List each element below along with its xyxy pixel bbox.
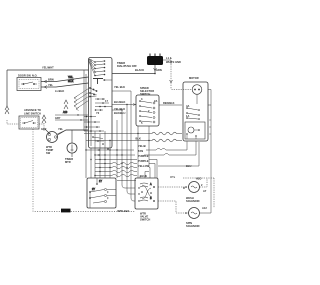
svg-text:GND: GND bbox=[62, 210, 68, 213]
timer T box bbox=[89, 58, 113, 149]
chassis dashed border left bbox=[33, 129, 42, 211]
svg-text:YEL BLK: YEL BLK bbox=[114, 85, 125, 89]
wire motor right bus bbox=[208, 104, 211, 106]
wire timer to speed YEL BLK bbox=[112, 90, 131, 92]
timer lower-left stubs bbox=[84, 117, 104, 132]
svg-text:H2O: H2O bbox=[196, 177, 201, 181]
water temp switch WT circle bbox=[47, 132, 58, 143]
svg-text:L1 &: L1 & bbox=[166, 56, 172, 60]
wire bundle row 7 zigzag bbox=[95, 174, 140, 178]
svg-text:BRN: BRN bbox=[48, 78, 54, 82]
node chevron left bbox=[5, 106, 9, 114]
wire BLU row right bbox=[158, 142, 199, 166]
wire white cord down to motor bbox=[171, 64, 192, 90]
label chassis bbox=[61, 209, 71, 213]
wire coil to motor 2 bbox=[86, 139, 182, 142]
svg-text:2A: 2A bbox=[154, 99, 157, 103]
wire door sw to timer BRN bbox=[41, 77, 89, 82]
svg-text:BLACK: BLACK bbox=[135, 68, 144, 72]
svg-text:4A: 4A bbox=[186, 104, 189, 108]
timer upper contacts bbox=[95, 61, 104, 76]
svg-text:PURPLE: PURPLE bbox=[138, 154, 149, 158]
node chevron center bbox=[64, 100, 68, 109]
timer mid contact cluster bbox=[89, 87, 97, 97]
svg-text:A7: A7 bbox=[203, 189, 207, 193]
svg-text:SW: SW bbox=[46, 151, 51, 155]
svg-text:RED/BLK: RED/BLK bbox=[163, 101, 175, 105]
motor protector circle bbox=[192, 85, 202, 95]
svg-text:LL/BLK: LL/BLK bbox=[55, 89, 64, 93]
svg-text:MOTOR: MOTOR bbox=[189, 76, 199, 80]
door switch contacts bbox=[21, 82, 37, 84]
chassis dashed border bottom bbox=[42, 210, 135, 212]
wire bundle row 3 PUR bbox=[95, 160, 157, 179]
advance switch contacts bbox=[22, 121, 36, 124]
wire valve to wash solenoid bbox=[158, 186, 189, 188]
svg-text:BLU: BLU bbox=[186, 164, 191, 168]
wash solenoid L1 circle bbox=[189, 182, 200, 193]
svg-text:YEL: YEL bbox=[58, 127, 63, 131]
water level switch WL box bbox=[87, 178, 116, 208]
svg-text:BLU/BLK: BLU/BLK bbox=[114, 100, 126, 104]
wire water temp right bbox=[58, 130, 89, 135]
wire valve to spin solenoid bbox=[158, 201, 189, 213]
wire bundle row 6 YELLOW zigzag bbox=[95, 170, 149, 178]
svg-text:GRN: GRN bbox=[156, 68, 162, 72]
motor M box bbox=[183, 82, 208, 141]
wire verticals into water level box bbox=[95, 91, 135, 201]
svg-text:TAN: TAN bbox=[138, 149, 143, 153]
wire advance dashed right down to water temp switch bbox=[39, 123, 44, 131]
wire speed selector to motor RED/BLK bbox=[159, 104, 182, 106]
wire dashed top row right bbox=[183, 177, 214, 179]
wire fan arrows into timer bbox=[74, 89, 89, 110]
svg-text:YEL/WHT: YEL/WHT bbox=[42, 66, 54, 70]
svg-text:A12: A12 bbox=[202, 206, 207, 210]
advance to line switch box bbox=[19, 116, 39, 129]
junction dots bundle bbox=[85, 133, 149, 176]
wire bundle row 8 BLUE bbox=[117, 180, 136, 182]
svg-text:YEL: YEL bbox=[48, 83, 53, 87]
node arrowheads bbox=[44, 80, 47, 88]
wire bundle row 4 PURPLE zigzag bbox=[95, 162, 155, 178]
wire bundle row 2 TAN bbox=[95, 142, 196, 156]
wire door sw to timer YEL bbox=[41, 83, 89, 87]
wire timer motor vertical bbox=[71, 130, 73, 157]
wire left vertical bbox=[6, 70, 8, 106]
motor contacts bbox=[187, 108, 198, 119]
water valve WV box bbox=[135, 178, 158, 209]
node chevron right of advance box bbox=[42, 115, 46, 123]
svg-text:PURPLE: PURPLE bbox=[138, 159, 149, 163]
svg-text:BLUE: BLUE bbox=[140, 174, 147, 178]
svg-text:1A: 1A bbox=[186, 114, 189, 118]
svg-text:SWITCH: SWITCH bbox=[140, 92, 150, 96]
svg-text:BLK/BLU: BLK/BLU bbox=[114, 111, 126, 115]
wire arrow into water temp switch bbox=[45, 129, 50, 134]
wire rows left-mid bbox=[55, 115, 88, 120]
svg-text:YELLOW: YELLOW bbox=[138, 164, 150, 168]
svg-text:YEL/B: YEL/B bbox=[138, 144, 146, 148]
wire BLACK from timer to plug bbox=[112, 65, 155, 74]
speed selector switch S box bbox=[136, 95, 159, 126]
svg-text:WHITE GND: WHITE GND bbox=[166, 60, 181, 64]
svg-text:A10: A10 bbox=[63, 111, 68, 114]
timer mid stubs right bbox=[95, 99, 112, 110]
svg-text:DIAL/PUSH OFF: DIAL/PUSH OFF bbox=[117, 64, 137, 68]
svg-text:WTE.BLK: WTE.BLK bbox=[118, 209, 130, 213]
svg-text:GRY: GRY bbox=[41, 127, 47, 131]
svg-text:DOOR SW. N.O.: DOOR SW. N.O. bbox=[18, 74, 38, 78]
svg-text:MTR: MTR bbox=[65, 160, 71, 164]
svg-text:2Y: 2Y bbox=[92, 188, 95, 191]
wire coil to motor 1 bbox=[84, 132, 182, 135]
svg-text:YEL: YEL bbox=[68, 75, 73, 79]
svg-text:SOLENOID: SOLENOID bbox=[186, 224, 200, 228]
svg-text:SOLENOID: SOLENOID bbox=[186, 199, 200, 203]
wire top-left horizontal YEL/WHT bbox=[7, 69, 89, 71]
wire verticals below speed selector bbox=[138, 126, 149, 178]
wire vertical bus left of timer bbox=[84, 70, 86, 178]
wire timer to speed BLU/BLK bbox=[112, 104, 136, 106]
wire grn arrow below plug bbox=[154, 68, 157, 71]
motor start winding box bbox=[185, 122, 205, 139]
timer fan lines bbox=[89, 59, 96, 76]
svg-text:Y2: Y2 bbox=[96, 111, 100, 115]
svg-text:WTE: WTE bbox=[170, 177, 176, 179]
power plug P1 bbox=[147, 56, 163, 65]
timer inner common strip bbox=[90, 59, 92, 146]
timer motor TM circle bbox=[67, 143, 77, 153]
svg-text:ADVANCE TO: ADVANCE TO bbox=[24, 108, 41, 112]
motor circle stub bbox=[196, 94, 198, 104]
svg-text:1Y: 1Y bbox=[99, 180, 102, 183]
svg-text:D: D bbox=[183, 186, 185, 190]
svg-text:BLK: BLK bbox=[136, 137, 141, 141]
wire advance dashed left bbox=[7, 120, 19, 124]
svg-text:GRY: GRY bbox=[55, 116, 61, 120]
wire bundle row 1 YEL/B bbox=[86, 142, 187, 151]
svg-text:LINE SWITCH: LINE SWITCH bbox=[24, 112, 41, 116]
door switch DS1 box bbox=[17, 78, 41, 91]
spin solenoid L2 circle bbox=[189, 208, 200, 219]
svg-text:YEL/BLK: YEL/BLK bbox=[114, 107, 125, 111]
wire row y130 water temp to bus bbox=[58, 130, 87, 134]
timer dial T-bar bbox=[93, 79, 103, 85]
svg-text:SWITCH: SWITCH bbox=[140, 218, 150, 222]
svg-text:BLK: BLK bbox=[68, 79, 73, 83]
wire bundle row 5 PURPLE zigzag bbox=[95, 166, 150, 178]
